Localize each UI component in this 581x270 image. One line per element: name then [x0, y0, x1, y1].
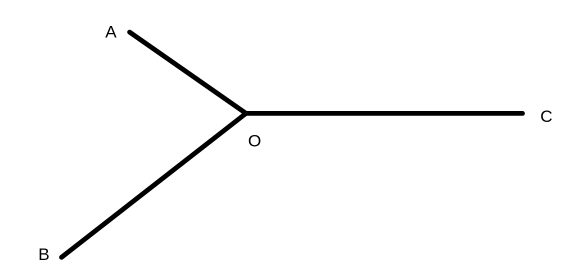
svg-text:A: A [105, 23, 117, 42]
svg-text:O: O [248, 131, 261, 150]
svg-text:C: C [540, 107, 552, 126]
ray O-B [62, 113, 247, 257]
ray O-C [246, 111, 523, 116]
svg-text:B: B [38, 245, 49, 264]
ray O-A [130, 32, 246, 113]
